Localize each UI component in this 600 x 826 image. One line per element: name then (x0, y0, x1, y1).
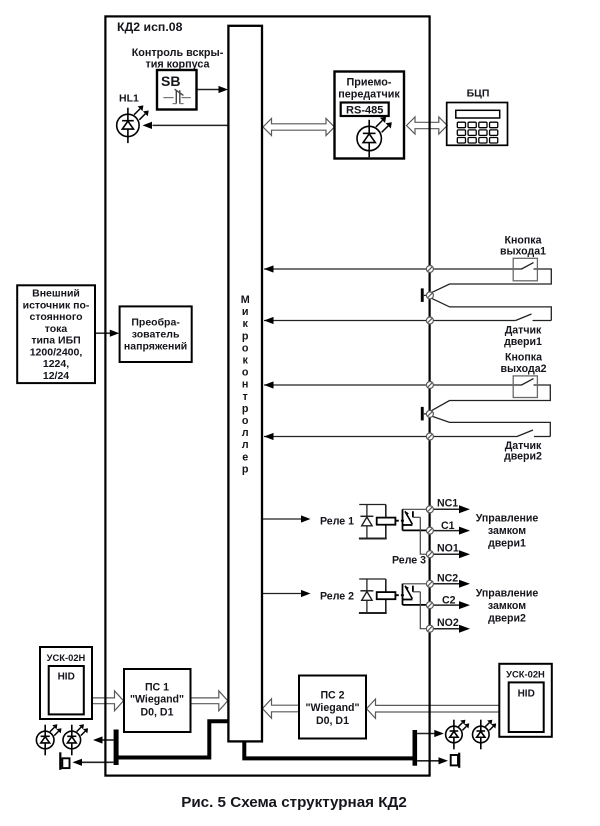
svg-text:к: к (242, 355, 248, 367)
svg-text:передатчик: передатчик (338, 89, 400, 101)
svg-text:к: к (242, 318, 248, 330)
svg-text:выхода1: выхода1 (500, 246, 546, 258)
svg-text:двери2: двери2 (504, 451, 542, 463)
svg-text:выхода2: выхода2 (500, 363, 546, 375)
svg-text:RS-485: RS-485 (346, 105, 383, 117)
svg-text:"Wiegand": "Wiegand" (130, 694, 184, 706)
svg-text:Рис. 5 Схема структурная КД2: Рис. 5 Схема структурная КД2 (181, 794, 407, 811)
svg-text:ПС 1: ПС 1 (145, 682, 169, 694)
svg-text:о: о (242, 342, 249, 354)
svg-text:SB: SB (161, 73, 180, 89)
svg-text:12/24: 12/24 (43, 370, 69, 382)
svg-text:типа ИБП: типа ИБП (31, 335, 80, 347)
svg-text:Управление: Управление (476, 513, 539, 525)
svg-text:р: р (242, 330, 249, 342)
svg-text:NC2: NC2 (437, 573, 458, 585)
svg-text:D0, D1: D0, D1 (316, 715, 349, 727)
svg-text:Преобра-: Преобра- (131, 317, 180, 329)
svg-text:замком: замком (488, 600, 526, 612)
svg-text:HID: HID (58, 671, 75, 682)
svg-text:двери1: двери1 (504, 336, 542, 348)
svg-text:Контроль вскры-: Контроль вскры- (132, 47, 224, 59)
svg-text:замком: замком (488, 525, 526, 537)
svg-text:D0, D1: D0, D1 (141, 707, 174, 719)
svg-text:Управление: Управление (476, 588, 539, 600)
svg-text:тока: тока (45, 323, 68, 335)
svg-text:Датчик: Датчик (505, 325, 542, 337)
svg-text:л: л (242, 427, 249, 439)
svg-text:и: и (242, 306, 249, 318)
svg-text:р: р (242, 463, 249, 475)
svg-text:Реле 1: Реле 1 (320, 516, 354, 528)
svg-text:источник по-: источник по- (23, 299, 90, 311)
svg-text:Внешний: Внешний (32, 288, 80, 300)
svg-text:NC1: NC1 (437, 498, 458, 510)
svg-text:тия корпуса: тия корпуса (145, 59, 210, 71)
svg-text:е: е (242, 451, 248, 463)
svg-text:двери1: двери1 (488, 538, 526, 550)
svg-text:УСК-02Н: УСК-02Н (47, 652, 86, 663)
svg-text:о: о (242, 415, 249, 427)
svg-text:УСК-02Н: УСК-02Н (506, 669, 545, 680)
svg-text:КД2 исп.08: КД2 исп.08 (117, 20, 183, 34)
svg-text:н: н (242, 379, 249, 391)
svg-text:л: л (242, 439, 249, 451)
svg-text:C2: C2 (442, 595, 456, 607)
svg-text:стоянного: стоянного (30, 311, 83, 323)
svg-text:р: р (242, 403, 249, 415)
svg-text:NO2: NO2 (437, 617, 459, 629)
svg-text:Кнопка: Кнопка (505, 352, 542, 364)
svg-text:HL1: HL1 (119, 93, 139, 105)
svg-text:Реле 3: Реле 3 (392, 555, 426, 567)
svg-text:C1: C1 (441, 520, 455, 532)
svg-text:напряжений: напряжений (124, 341, 187, 353)
svg-text:1224,: 1224, (43, 358, 69, 370)
svg-text:ПС 2: ПС 2 (320, 690, 344, 702)
svg-text:1200/2400,: 1200/2400, (30, 346, 83, 358)
svg-text:о: о (242, 367, 249, 379)
svg-text:Приемо-: Приемо- (347, 77, 392, 89)
svg-text:БЦП: БЦП (467, 88, 490, 100)
svg-text:"Wiegand": "Wiegand" (305, 702, 359, 714)
svg-text:т: т (243, 391, 248, 403)
svg-text:NO1: NO1 (437, 543, 459, 555)
svg-text:Реле 2: Реле 2 (320, 591, 354, 603)
svg-text:HID: HID (518, 689, 535, 700)
svg-text:зователь: зователь (132, 329, 180, 341)
svg-text:двери2: двери2 (488, 612, 526, 624)
svg-text:М: М (241, 294, 250, 306)
